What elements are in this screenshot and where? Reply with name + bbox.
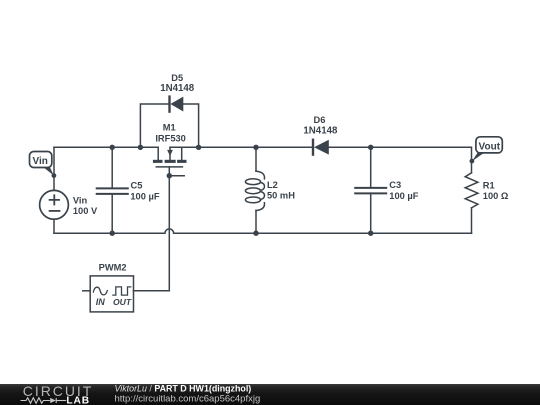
svg-text:D5: D5 bbox=[171, 73, 183, 83]
svg-text:ViktorLu / PART D HW1(dingzhol: ViktorLu / PART D HW1(dingzhol) bbox=[115, 383, 252, 393]
svg-text:R1: R1 bbox=[483, 181, 495, 191]
svg-text:100 V: 100 V bbox=[73, 206, 98, 216]
svg-text:PWM2: PWM2 bbox=[99, 263, 127, 273]
svg-text:M1: M1 bbox=[163, 123, 176, 133]
svg-text:L2: L2 bbox=[267, 180, 278, 190]
svg-text:LAB: LAB bbox=[66, 396, 90, 405]
svg-text:1N4148: 1N4148 bbox=[160, 83, 195, 94]
svg-text:100 µF: 100 µF bbox=[389, 191, 418, 201]
svg-text:Vout: Vout bbox=[479, 141, 501, 152]
svg-text:D6: D6 bbox=[314, 115, 326, 125]
svg-text:IRF530: IRF530 bbox=[155, 133, 186, 143]
svg-text:1N4148: 1N4148 bbox=[303, 125, 338, 136]
svg-text:IN: IN bbox=[96, 297, 106, 307]
svg-text:C3: C3 bbox=[389, 180, 401, 190]
svg-text:50 mH: 50 mH bbox=[267, 190, 295, 200]
svg-text:Vin: Vin bbox=[33, 156, 48, 167]
svg-text:OUT: OUT bbox=[113, 297, 132, 307]
svg-text:100 µF: 100 µF bbox=[130, 191, 159, 201]
svg-text:C5: C5 bbox=[131, 181, 143, 191]
svg-text:100 Ω: 100 Ω bbox=[483, 191, 509, 201]
svg-text:Vin: Vin bbox=[73, 196, 88, 206]
svg-text:http://circuitlab.com/c6ap56c4: http://circuitlab.com/c6ap56c4pfxjg bbox=[115, 394, 261, 405]
